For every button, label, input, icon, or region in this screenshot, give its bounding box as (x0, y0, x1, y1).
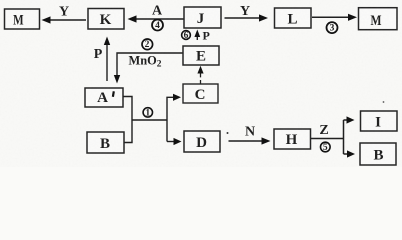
box C (183, 84, 218, 103)
box M (top left) (5, 9, 40, 29)
box E (183, 46, 219, 65)
wire arrow D to H labeled N (227, 125, 271, 145)
box L (275, 8, 312, 28)
box B (lower left) (87, 132, 124, 153)
wire merge of A and B with circled 1 branching to C and D (123, 94, 182, 145)
box J (184, 7, 221, 28)
box I (361, 111, 398, 131)
wire dashed arrow C up to E (197, 66, 203, 84)
node speck (383, 101, 385, 103)
wire H branch labeled Z circled 5 to I and B (311, 116, 355, 157)
wire arrow K to M labeled Y (42, 5, 87, 24)
wire arrow L to M labeled circled 3 (312, 14, 357, 34)
box D (184, 131, 220, 152)
box A' (85, 88, 123, 107)
wire arrow J to K labeled A with circled 4 (128, 4, 185, 31)
box K (88, 9, 124, 30)
box B (bottom right) (360, 143, 396, 165)
wire arrow J to L labeled Y (225, 4, 269, 22)
wire short arrow up to J with circled 6 and P (182, 28, 210, 42)
wire from E with MnO2 label and circled 2, arrow down (114, 39, 183, 84)
box H (274, 129, 311, 149)
box M (top right) (359, 8, 398, 30)
wire vertical arrow up to K labeled P (94, 37, 110, 82)
